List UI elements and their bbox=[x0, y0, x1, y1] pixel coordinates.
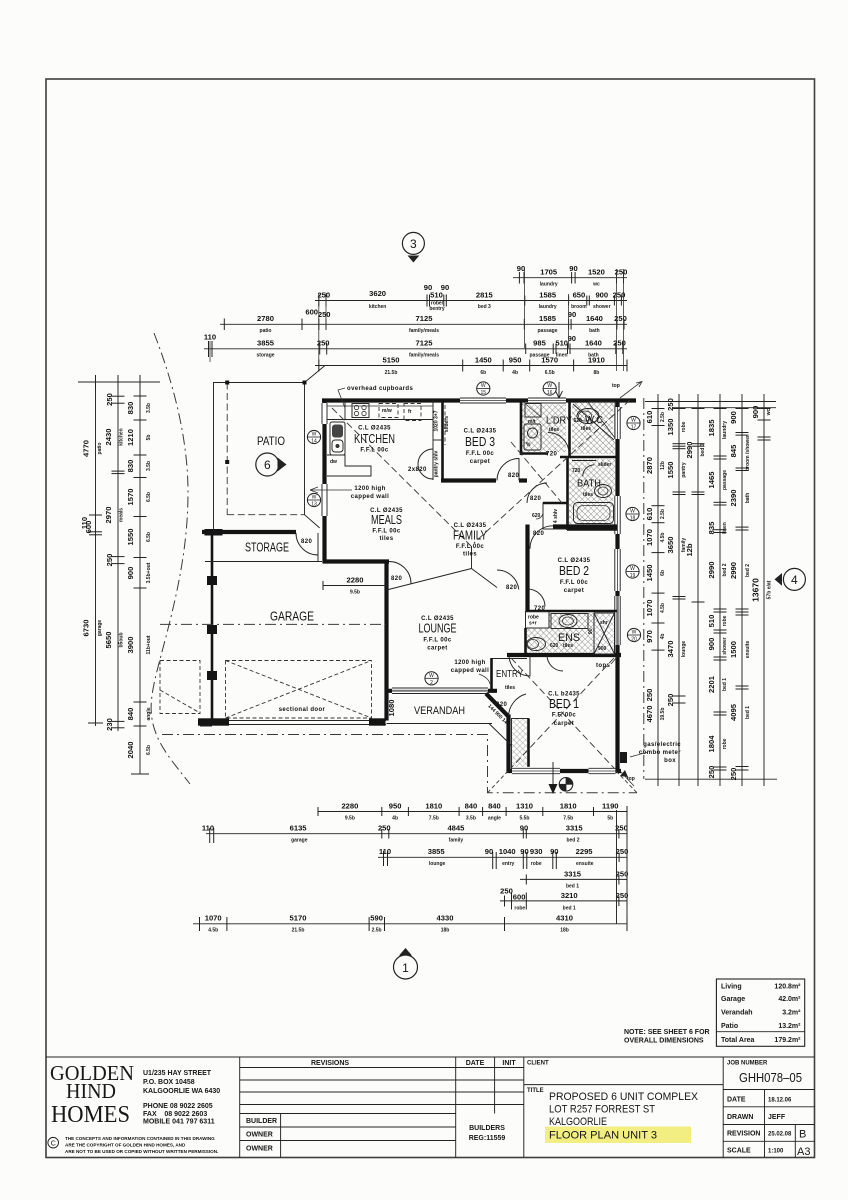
svg-text:robe: robe bbox=[722, 738, 728, 749]
svg-text:pantry: pantry bbox=[681, 462, 687, 478]
svg-text:robe: robe bbox=[531, 861, 542, 867]
svg-text:Garage: Garage bbox=[721, 996, 745, 1003]
svg-text:820: 820 bbox=[506, 585, 517, 591]
patio corner splays bbox=[305, 366, 326, 383]
svg-text:BED 3: BED 3 bbox=[465, 435, 495, 449]
svg-text:tiles: tiles bbox=[379, 536, 393, 542]
svg-text:820: 820 bbox=[533, 531, 544, 537]
svg-text:7125: 7125 bbox=[416, 314, 434, 323]
right chain 6: overall 13670 bbox=[751, 394, 773, 786]
lounge south wall with window band bbox=[385, 689, 497, 693]
entry door arc bbox=[509, 694, 527, 717]
svg-text:6.5b: 6.5b bbox=[545, 370, 555, 376]
svg-text:angle: angle bbox=[488, 816, 501, 822]
svg-text:250: 250 bbox=[616, 870, 629, 879]
svg-text:ensuite: ensuite bbox=[745, 641, 751, 659]
svg-text:250: 250 bbox=[500, 887, 513, 896]
svg-text:bed 3: bed 3 bbox=[478, 304, 491, 310]
svg-text:CLIENT: CLIENT bbox=[527, 1061, 549, 1067]
svg-text:7.5b: 7.5b bbox=[563, 816, 573, 822]
svg-text:capped wall: capped wall bbox=[451, 668, 489, 674]
svg-text:BED 1: BED 1 bbox=[549, 697, 579, 711]
svg-text:tiles: tiles bbox=[505, 685, 515, 691]
svg-text:25.02.08: 25.02.08 bbox=[768, 1132, 792, 1138]
ens vanity bbox=[551, 614, 588, 629]
svg-text:1705: 1705 bbox=[540, 268, 558, 277]
svg-text:passage: passage bbox=[722, 470, 728, 490]
W15 bbox=[477, 382, 490, 395]
top dim line A: laundry/wc bbox=[513, 264, 627, 288]
svg-text:shower: shower bbox=[593, 304, 611, 310]
svg-text:s+r: s+r bbox=[529, 621, 537, 627]
svg-text:bath: bath bbox=[745, 493, 751, 504]
svg-text:830: 830 bbox=[126, 402, 135, 415]
kitchen bench return + dw bbox=[327, 455, 371, 476]
bed2 robe door arc bbox=[528, 589, 546, 607]
svg-text:18b: 18b bbox=[560, 928, 569, 934]
svg-text:11b+out: 11b+out bbox=[146, 635, 152, 654]
bed2 south wall bbox=[526, 610, 618, 613]
svg-text:2990: 2990 bbox=[729, 562, 738, 579]
title block top line bbox=[46, 1056, 815, 1058]
svg-text:20: 20 bbox=[631, 637, 637, 643]
svg-text:bed 2: bed 2 bbox=[745, 564, 751, 577]
svg-text:90: 90 bbox=[588, 628, 594, 634]
svg-text:3.5b: 3.5b bbox=[146, 403, 152, 413]
svg-text:PROPOSED 6 UNIT COMPLEX: PROPOSED 6 UNIT COMPLEX bbox=[549, 1091, 699, 1103]
right chain 3 bbox=[685, 394, 706, 786]
svg-text:840: 840 bbox=[488, 802, 501, 811]
patio corner dots bbox=[225, 381, 229, 385]
hatch: bed1 robe shelving bbox=[512, 719, 529, 772]
svg-text:JOB NUMBER: JOB NUMBER bbox=[727, 1061, 768, 1067]
svg-text:3.5b+out: 3.5b+out bbox=[146, 562, 152, 583]
svg-text:2295: 2295 bbox=[576, 847, 594, 856]
lounge capped wall (1200 high) bbox=[490, 658, 493, 692]
svg-text:42.0m²: 42.0m² bbox=[778, 996, 801, 1003]
top block extension verticals bbox=[318, 293, 320, 371]
svg-text:INIT: INIT bbox=[502, 1060, 516, 1067]
svg-text:robe: robe bbox=[681, 421, 687, 432]
storage east line bbox=[317, 533, 319, 562]
left chain 3 bbox=[126, 382, 152, 774]
svg-text:W: W bbox=[630, 509, 635, 515]
svg-text:broom /shower: broom /shower bbox=[745, 435, 751, 471]
svg-text:DATE: DATE bbox=[727, 1097, 746, 1104]
svg-text:THE CONCEPTS AND INFORMATION C: THE CONCEPTS AND INFORMATION CONTAINED I… bbox=[65, 1136, 215, 1141]
svg-text:250: 250 bbox=[614, 314, 627, 323]
svg-text:250: 250 bbox=[317, 291, 330, 300]
pantry double doors 2x820 bbox=[418, 449, 433, 464]
W14 bbox=[307, 430, 320, 443]
svg-text:W: W bbox=[547, 383, 552, 389]
svg-text:57b e/at: 57b e/at bbox=[767, 580, 773, 599]
svg-text:OVERALL DIMENSIONS: OVERALL DIMENSIONS bbox=[624, 1038, 704, 1045]
svg-text:900: 900 bbox=[729, 411, 738, 424]
title block: logo cell right edge bbox=[239, 1057, 241, 1158]
svg-text:6.5b: 6.5b bbox=[146, 745, 152, 755]
svg-text:3315: 3315 bbox=[566, 824, 584, 833]
svg-text:5b: 5b bbox=[146, 435, 152, 441]
east wall windows: wc, bath, bed2, ens bbox=[613, 407, 621, 439]
svg-text:1640: 1640 bbox=[586, 314, 603, 323]
svg-text:carpet: carpet bbox=[554, 721, 574, 727]
svg-text:600: 600 bbox=[84, 521, 93, 534]
svg-text:laundry: laundry bbox=[722, 421, 728, 439]
svg-text:bed 1: bed 1 bbox=[563, 906, 576, 912]
svg-text:A3: A3 bbox=[797, 1146, 810, 1158]
garage south wall: sectional door opening bbox=[198, 720, 386, 722]
svg-text:900: 900 bbox=[595, 291, 608, 300]
svg-text:230: 230 bbox=[105, 718, 114, 731]
svg-text:BUILDERS: BUILDERS bbox=[469, 1125, 505, 1132]
sectional door dashed panel bbox=[226, 661, 372, 719]
svg-text:NOTE: SEE SHEET 6 FOR: NOTE: SEE SHEET 6 FOR bbox=[624, 1029, 710, 1036]
svg-text:510: 510 bbox=[430, 291, 443, 300]
svg-text:robe: robe bbox=[514, 906, 525, 912]
svg-text:18: 18 bbox=[630, 516, 636, 522]
meals-family opening arc bbox=[389, 562, 411, 584]
svg-text:bentry: bentry bbox=[429, 306, 445, 312]
svg-text:5150: 5150 bbox=[383, 356, 400, 365]
W20 bbox=[627, 628, 640, 641]
bed2 west wall bbox=[525, 525, 529, 613]
bath west wall bbox=[566, 457, 569, 530]
svg-text:179.2m²: 179.2m² bbox=[774, 1037, 801, 1044]
right chain extra ticks bbox=[673, 409, 771, 768]
svg-text:4b: 4b bbox=[512, 370, 518, 376]
svg-text:Total Area: Total Area bbox=[721, 1037, 755, 1044]
family-lounge door arc bbox=[497, 570, 519, 590]
svg-text:1570: 1570 bbox=[126, 489, 135, 506]
eaves dash right side bbox=[643, 398, 645, 779]
svg-text:21.5b: 21.5b bbox=[385, 370, 398, 376]
svg-text:lounge: lounge bbox=[429, 861, 446, 867]
svg-text:2x820: 2x820 bbox=[408, 467, 427, 473]
svg-text:15: 15 bbox=[481, 390, 487, 396]
left 110 double ticks row2 bottom bbox=[200, 725, 212, 727]
shower corner box (wc) bbox=[588, 402, 615, 438]
svg-text:m/w: m/w bbox=[382, 408, 392, 414]
hatch: wc/shower floor tiles bbox=[572, 402, 615, 454]
datum circle 3 bbox=[402, 232, 424, 254]
svg-text:13670: 13670 bbox=[751, 578, 761, 602]
svg-text:family/meals: family/meals bbox=[409, 328, 439, 334]
kitchen bench along top bbox=[327, 419, 433, 421]
svg-text:lounge: lounge bbox=[681, 641, 687, 658]
svg-text:W: W bbox=[312, 432, 317, 438]
bottom dim line 5: robe / bed1 bbox=[500, 887, 628, 912]
wc toilet bbox=[577, 409, 599, 424]
svg-text:610: 610 bbox=[645, 411, 654, 424]
svg-text:90: 90 bbox=[517, 264, 525, 273]
svg-text:entry: entry bbox=[502, 861, 514, 867]
svg-text:3855: 3855 bbox=[257, 339, 275, 348]
svg-text:1070: 1070 bbox=[205, 914, 222, 923]
svg-text:950: 950 bbox=[509, 356, 522, 365]
svg-text:1450: 1450 bbox=[475, 356, 492, 365]
laundry/wc divider bbox=[568, 400, 571, 457]
svg-text:STORAGE: STORAGE bbox=[245, 541, 289, 555]
svg-text:family/meals: family/meals bbox=[409, 353, 439, 359]
svg-text:DATE: DATE bbox=[466, 1060, 485, 1067]
svg-text:1210: 1210 bbox=[126, 429, 135, 446]
svg-text:840: 840 bbox=[465, 802, 478, 811]
verandah slab edge bbox=[387, 723, 493, 725]
svg-text:1020 3+7: 1020 3+7 bbox=[434, 410, 440, 431]
svg-text:7.5b: 7.5b bbox=[429, 816, 439, 822]
laundry washer bbox=[525, 404, 541, 418]
svg-text:17: 17 bbox=[631, 425, 637, 431]
garage west wall bbox=[211, 531, 214, 721]
svg-text:250: 250 bbox=[616, 891, 629, 900]
svg-text:90: 90 bbox=[520, 847, 528, 856]
patio right edge bbox=[304, 383, 306, 515]
svg-text:bed 1: bed 1 bbox=[745, 706, 751, 719]
garage/lounge dividing wall bbox=[384, 560, 388, 721]
entry splay wall bbox=[486, 694, 509, 717]
svg-text:1910: 1910 bbox=[588, 356, 605, 365]
svg-text:passage: passage bbox=[537, 328, 557, 334]
svg-text:510: 510 bbox=[555, 339, 568, 348]
svg-text:1070: 1070 bbox=[645, 600, 654, 617]
svg-text:820: 820 bbox=[508, 473, 519, 479]
W2 lounge bbox=[425, 672, 438, 685]
svg-text:4.5b: 4.5b bbox=[660, 603, 666, 613]
west wall windows (kitchen W14, meals capped wall) bbox=[321, 403, 329, 424]
svg-text:1570: 1570 bbox=[541, 356, 558, 365]
svg-text:B: B bbox=[799, 1129, 806, 1141]
svg-text:ENS: ENS bbox=[558, 632, 580, 644]
svg-text:1: 1 bbox=[402, 961, 409, 975]
svg-text:W: W bbox=[632, 630, 637, 636]
svg-text:F.F.L 00c: F.F.L 00c bbox=[456, 544, 484, 550]
svg-text:4b: 4b bbox=[660, 634, 666, 640]
svg-text:SCALE: SCALE bbox=[727, 1148, 751, 1155]
svg-text:tops: tops bbox=[596, 663, 611, 669]
svg-text:dw: dw bbox=[330, 459, 337, 465]
bath north wall + slider bbox=[560, 456, 617, 459]
svg-text:1080: 1080 bbox=[387, 700, 396, 717]
north wall kitchen-to-corner bbox=[322, 398, 636, 402]
bed1 south windows bbox=[512, 767, 560, 775]
svg-text:F.F.L 00c: F.F.L 00c bbox=[560, 580, 588, 586]
right chain 4 bbox=[707, 394, 728, 786]
copyright symbol bbox=[48, 1137, 59, 1148]
meals south wall bbox=[323, 559, 390, 563]
svg-text:F.F.L 00c: F.F.L 00c bbox=[466, 451, 494, 457]
svg-text:90: 90 bbox=[568, 310, 576, 319]
datum circle 6 bbox=[256, 453, 279, 476]
svg-text:tiles: tiles bbox=[463, 552, 477, 558]
svg-text:3315: 3315 bbox=[564, 870, 582, 879]
svg-text:bed 1: bed 1 bbox=[566, 884, 579, 890]
meals 2280 dim bbox=[323, 585, 387, 587]
svg-text:slider: slider bbox=[598, 462, 611, 468]
svg-text:1804: 1804 bbox=[707, 735, 716, 753]
fridge dashed box bbox=[404, 404, 421, 421]
kitchen/bed3 robe-pantry column walls bbox=[432, 400, 434, 480]
svg-text:1585: 1585 bbox=[539, 314, 557, 323]
bed2 door arc bbox=[530, 526, 553, 549]
bed2 robe box bbox=[526, 612, 550, 629]
svg-text:720: 720 bbox=[572, 468, 581, 474]
svg-text:2780: 2780 bbox=[257, 314, 274, 323]
bottom section arrow bbox=[552, 762, 554, 786]
svg-text:2430: 2430 bbox=[104, 429, 113, 446]
bed1 ceiling X bbox=[511, 658, 614, 768]
svg-text:110: 110 bbox=[204, 333, 216, 342]
svg-text:kitchen: kitchen bbox=[119, 428, 125, 446]
garage centreline bbox=[160, 623, 386, 625]
svg-text:FAX 08 9022 2603: FAX 08 9022 2603 bbox=[143, 1111, 207, 1118]
microwave dashed box bbox=[379, 404, 398, 418]
svg-text:HOMES: HOMES bbox=[51, 1102, 130, 1128]
svg-text:830: 830 bbox=[126, 460, 135, 473]
svg-text:VERANDAH: VERANDAH bbox=[414, 705, 465, 717]
svg-text:MEALS: MEALS bbox=[371, 513, 402, 527]
svg-text:PHONE 08 9022 2605: PHONE 08 9022 2605 bbox=[143, 1103, 213, 1110]
bed3 door arc bbox=[497, 459, 519, 481]
SE corner top marker bbox=[621, 772, 634, 786]
svg-text:18b: 18b bbox=[441, 928, 450, 934]
svg-text:2990: 2990 bbox=[707, 562, 716, 579]
svg-text:14: 14 bbox=[311, 439, 317, 445]
svg-text:1810: 1810 bbox=[425, 802, 442, 811]
svg-text:900: 900 bbox=[751, 406, 760, 419]
svg-text:250: 250 bbox=[645, 689, 654, 702]
right chain 2 bbox=[666, 394, 687, 786]
svg-text:900: 900 bbox=[126, 567, 135, 580]
svg-text:2390: 2390 bbox=[729, 490, 738, 507]
bottom block right edge verticals bbox=[616, 810, 618, 924]
svg-text:FAMILY: FAMILY bbox=[453, 529, 488, 543]
svg-text:4095: 4095 bbox=[729, 703, 738, 721]
svg-text:Living: Living bbox=[721, 984, 742, 991]
bath tub bbox=[574, 503, 614, 524]
ens shower bbox=[594, 613, 615, 654]
svg-text:3210: 3210 bbox=[561, 891, 578, 900]
svg-text:patio: patio bbox=[260, 328, 272, 334]
family-passage door arc bbox=[527, 483, 547, 503]
laundry door arc bbox=[548, 433, 569, 454]
svg-text:REG:11559: REG:11559 bbox=[469, 1135, 506, 1142]
ceiling valley NW-SE bbox=[332, 408, 471, 546]
kitchen sink double bowl bbox=[330, 422, 345, 455]
svg-text:510: 510 bbox=[707, 615, 716, 628]
top dim line D: storage / family-meals / passage-linen / bath bbox=[204, 333, 627, 359]
svg-text:tiles: tiles bbox=[583, 492, 593, 498]
svg-text:1550: 1550 bbox=[126, 529, 135, 546]
svg-text:ARE NOT TO BE USED OR COPIED W: ARE NOT TO BE USED OR COPIED WITHOUT WRI… bbox=[65, 1149, 218, 1154]
east wall bbox=[615, 399, 619, 774]
W16 bbox=[543, 382, 556, 395]
north laundry door arrow bbox=[556, 382, 563, 398]
svg-text:C.L Ø2435: C.L Ø2435 bbox=[358, 426, 391, 432]
svg-text:garage: garage bbox=[97, 620, 103, 637]
svg-text:1835: 1835 bbox=[707, 419, 716, 437]
svg-text:top: top bbox=[627, 776, 635, 782]
right chain 1 bbox=[645, 394, 666, 786]
entry north: family/lounge edge to ens bbox=[492, 658, 528, 660]
svg-text:4 shlv: 4 shlv bbox=[553, 509, 559, 523]
svg-text:LOUNGE: LOUNGE bbox=[419, 622, 457, 636]
svg-text:1585: 1585 bbox=[539, 291, 557, 300]
svg-text:6.5b: 6.5b bbox=[146, 532, 152, 542]
svg-text:GARAGE: GARAGE bbox=[270, 610, 314, 624]
svg-text:110: 110 bbox=[202, 824, 214, 833]
svg-text:MOBILE 041 797 6311: MOBILE 041 797 6311 bbox=[143, 1119, 215, 1126]
svg-text:90: 90 bbox=[550, 847, 558, 856]
svg-text:90: 90 bbox=[569, 264, 577, 273]
svg-text:250: 250 bbox=[616, 847, 629, 856]
svg-text:950: 950 bbox=[389, 802, 402, 811]
svg-text:family: family bbox=[449, 838, 464, 844]
svg-text:W.C: W.C bbox=[585, 415, 603, 426]
svg-text:90: 90 bbox=[520, 824, 528, 833]
left chain 2 bbox=[104, 382, 125, 731]
svg-text:19: 19 bbox=[630, 573, 636, 579]
svg-text:ENTRY: ENTRY bbox=[496, 669, 523, 680]
svg-text:fr: fr bbox=[408, 409, 412, 415]
svg-text:5.5b: 5.5b bbox=[519, 816, 529, 822]
patio top edge bbox=[214, 382, 305, 384]
top dim line E: 5150 / 1450 / 950 / 1570 / 1910 bbox=[315, 356, 627, 377]
bottom dim line 3: lounge/entry/robe/ensuite bbox=[378, 847, 628, 869]
svg-text:top: top bbox=[612, 383, 620, 389]
svg-text:7125: 7125 bbox=[416, 339, 434, 348]
svg-text:3.2m²: 3.2m² bbox=[782, 1010, 801, 1017]
svg-text:OWNER: OWNER bbox=[246, 1146, 273, 1153]
storage south line bbox=[205, 561, 322, 563]
svg-text:250: 250 bbox=[613, 339, 626, 348]
svg-text:840: 840 bbox=[126, 708, 135, 721]
bed1 door arc bbox=[509, 655, 530, 676]
W17 bbox=[627, 416, 640, 429]
svg-text:820: 820 bbox=[530, 496, 541, 502]
svg-text:1040: 1040 bbox=[499, 847, 516, 856]
svg-text:ensuite: ensuite bbox=[576, 861, 594, 867]
svg-text:18.12.06: 18.12.06 bbox=[768, 1098, 792, 1104]
garage wall piers bbox=[205, 529, 223, 536]
svg-text:600: 600 bbox=[513, 893, 526, 902]
bottom dim line 2: garage/family/bed2 bbox=[202, 824, 628, 844]
svg-text:U1/235 HAY STREET: U1/235 HAY STREET bbox=[143, 1070, 212, 1077]
svg-text:250: 250 bbox=[105, 393, 114, 406]
svg-text:wc: wc bbox=[766, 408, 772, 416]
ens/bed1 north wall bbox=[507, 653, 621, 657]
svg-text:1550: 1550 bbox=[666, 462, 675, 479]
svg-text:ARE THE COPYRIGHT OF GOLDEN HI: ARE THE COPYRIGHT OF GOLDEN HIND HOMES, … bbox=[65, 1143, 186, 1148]
lounge opening hip: stub + legs bbox=[471, 546, 473, 569]
svg-text:GHH078–05: GHH078–05 bbox=[739, 1071, 802, 1085]
svg-text:6730: 6730 bbox=[82, 620, 91, 637]
svg-text:600: 600 bbox=[305, 308, 318, 317]
svg-text:BATH: BATH bbox=[577, 479, 601, 490]
svg-text:2: 2 bbox=[430, 680, 433, 686]
linen closet bbox=[543, 503, 568, 529]
svg-text:JEFF: JEFF bbox=[768, 1114, 786, 1121]
svg-text:TITLE: TITLE bbox=[527, 1088, 544, 1094]
svg-text:KALGOORLIE WA 6430: KALGOORLIE WA 6430 bbox=[143, 1088, 220, 1095]
svg-text:1200 high: 1200 high bbox=[454, 660, 485, 666]
svg-text:robe: robe bbox=[722, 615, 728, 626]
storage/patio left edge bbox=[213, 382, 215, 531]
svg-text:2.5b: 2.5b bbox=[372, 928, 382, 934]
bed2 north wall + stub bbox=[553, 524, 617, 528]
svg-text:carpet: carpet bbox=[470, 459, 490, 465]
svg-text:1350: 1350 bbox=[666, 419, 675, 436]
